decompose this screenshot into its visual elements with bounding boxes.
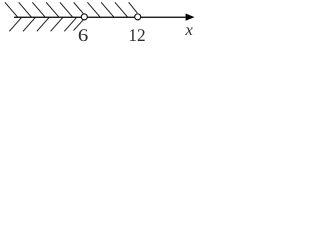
hatch stroke B5	[64, 18, 76, 32]
hatch stroke A8	[101, 2, 114, 17]
svg-text:x: x	[185, 20, 194, 39]
hatching below line (region x < 6)	[9, 18, 83, 32]
hatch stroke A6	[74, 2, 87, 17]
hatch stroke A9	[115, 2, 128, 17]
hatch stroke A1	[5, 2, 18, 17]
hatch stroke B6 (emerging from under circle at 6)	[74, 20, 84, 31]
number line	[14, 16, 188, 18]
hatch stroke A3	[32, 2, 45, 17]
hatch stroke B3	[37, 18, 49, 32]
hatch stroke A2	[19, 2, 32, 17]
hatch stroke A10 (ends at circle at 12)	[129, 2, 138, 13]
hatch stroke B1	[9, 18, 21, 32]
hatch stroke B4	[51, 18, 63, 32]
hatch stroke B2	[23, 18, 35, 32]
arrowhead	[186, 14, 195, 21]
hatch stroke A7	[87, 2, 100, 17]
hatch stroke A5	[60, 2, 73, 17]
hatch stroke A4	[46, 2, 59, 17]
open circle at 12	[135, 14, 141, 20]
svg-text:12: 12	[128, 25, 145, 45]
open circle at 6	[81, 14, 87, 20]
svg-text:6: 6	[78, 25, 89, 45]
hatching above line (region x < 12)	[5, 2, 137, 17]
